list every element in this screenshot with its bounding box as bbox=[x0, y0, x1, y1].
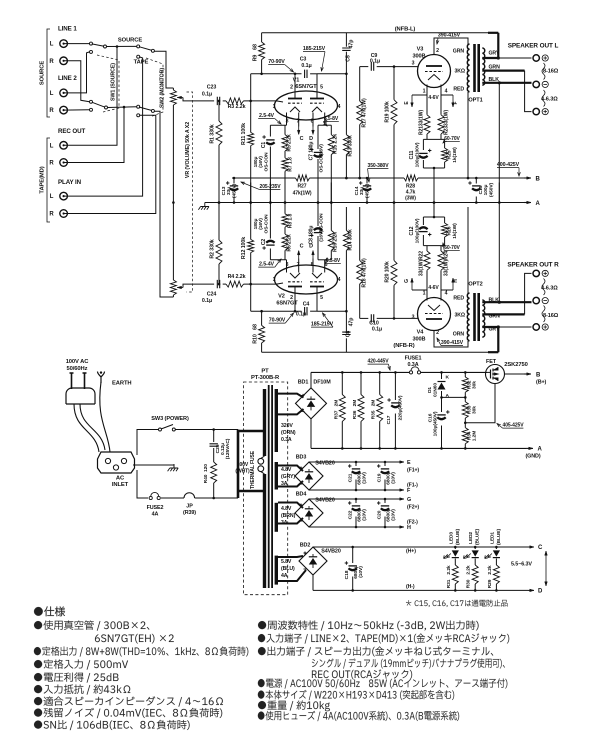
wire BD2 + rail (H+) bbox=[313, 546, 528, 548]
svg-text:R22: R22 bbox=[419, 251, 425, 260]
svg-text:01N60: 01N60 bbox=[433, 383, 439, 397]
wire NFB corner thick bbox=[488, 351, 498, 353]
wire cathode2 node bbox=[318, 259, 331, 261]
resistor R36 2M bbox=[358, 395, 364, 422]
PT dashed boundary bbox=[244, 382, 288, 595]
wire bbox=[317, 159, 319, 203]
svg-text:R31: R31 bbox=[446, 579, 452, 588]
wire grid entry bbox=[277, 283, 284, 284]
capacitor C24 0.1u bbox=[217, 280, 219, 288]
svg-text:8-16Ω: 8-16Ω bbox=[543, 69, 559, 75]
junction bbox=[467, 177, 470, 180]
svg-text:(BLUE): (BLUE) bbox=[475, 529, 481, 545]
capacitor C4 0.1u bbox=[305, 307, 307, 315]
wire BD4 - rail bbox=[309, 526, 398, 528]
wire 300B pin4 bbox=[440, 85, 442, 96]
svg-text:S4VB20: S4VB20 bbox=[315, 498, 335, 504]
svg-text:GRN: GRN bbox=[489, 314, 501, 320]
svg-text:C24: C24 bbox=[207, 292, 217, 298]
svg-text:VR (VOLUME) 50k A X2: VR (VOLUME) 50k A X2 bbox=[185, 122, 191, 178]
svg-text:2: 2 bbox=[436, 48, 439, 54]
svg-text:100V: 100V bbox=[237, 462, 249, 468]
svg-text:RED: RED bbox=[453, 296, 464, 302]
junction bbox=[474, 546, 477, 549]
switch SW2 pole-b arm bbox=[139, 107, 152, 111]
wire bbox=[345, 155, 347, 178]
svg-text:OS-CON: OS-CON bbox=[264, 152, 270, 172]
junction bbox=[249, 201, 252, 204]
wire NFB-L rail bbox=[262, 32, 499, 34]
mosfet FET 2SK2750 bbox=[486, 365, 505, 384]
svg-text:INLET: INLET bbox=[112, 482, 129, 488]
svg-text:33μ: 33μ bbox=[359, 187, 365, 195]
junction bbox=[284, 201, 287, 204]
svg-text:(10V): (10V) bbox=[362, 472, 368, 484]
wire bbox=[317, 125, 319, 149]
arrow H bbox=[398, 526, 404, 528]
switch SW1 pole-a contact TAPE bbox=[90, 50, 93, 53]
switch SW2 pole-a arm bbox=[139, 47, 152, 51]
junction bbox=[360, 371, 363, 374]
svg-text:100V AC: 100V AC bbox=[66, 359, 90, 365]
svg-text:R40: R40 bbox=[203, 474, 209, 483]
svg-text:405-425V: 405-425V bbox=[503, 423, 525, 429]
jumper JP (R39) bbox=[184, 493, 195, 498]
wire bbox=[250, 146, 252, 203]
svg-text:SOURCE: SOURCE bbox=[40, 61, 46, 85]
svg-text:EARTH: EARTH bbox=[112, 381, 131, 387]
wire SW2b common to VR2 bottom bbox=[154, 111, 173, 297]
junction bbox=[345, 177, 348, 180]
svg-text:THERMAL FUSE: THERMAL FUSE bbox=[250, 450, 256, 489]
junction bbox=[498, 201, 501, 204]
wire GRY to terminal bbox=[498, 57, 531, 59]
junction bbox=[366, 177, 369, 180]
svg-text:30k: 30k bbox=[472, 381, 478, 389]
wire bbox=[213, 448, 215, 462]
svg-text:300B: 300B bbox=[413, 54, 426, 60]
junction bbox=[284, 201, 287, 204]
junction bbox=[454, 589, 457, 592]
wire BLK to ground rail bbox=[498, 183, 500, 303]
RCA jack LINE1 R bbox=[60, 57, 68, 65]
svg-text:S4VB20: S4VB20 bbox=[315, 461, 335, 467]
svg-text:LED2: LED2 bbox=[468, 532, 474, 544]
svg-text:(GRY): (GRY) bbox=[281, 474, 295, 480]
svg-text:185-215V: 185-215V bbox=[303, 46, 326, 52]
switch SW1 pole-a arm bbox=[92, 44, 104, 46]
svg-text:2.2k: 2.2k bbox=[446, 565, 452, 574]
switch SW2 dashed boundary bbox=[146, 58, 163, 117]
wire bbox=[269, 249, 271, 260]
wire bbox=[250, 183, 252, 240]
svg-text:PLAY IN: PLAY IN bbox=[58, 179, 82, 186]
junction bbox=[464, 422, 467, 425]
wire OPT primary to B+ rail bbox=[467, 92, 469, 178]
capacitor C5 47p bbox=[342, 48, 350, 50]
wire NFB-R rail bbox=[262, 351, 499, 353]
wire bbox=[317, 236, 319, 260]
RCA jack REC OUT L bbox=[60, 142, 68, 150]
wire FET drain bbox=[487, 371, 491, 373]
svg-text:0.1μ: 0.1μ bbox=[202, 298, 212, 304]
svg-text:6SN7GT: 6SN7GT bbox=[295, 84, 317, 90]
wire bbox=[341, 421, 343, 448]
wire bbox=[250, 74, 252, 133]
wire 300B pin1 bbox=[426, 85, 428, 96]
wire FET output to B+ bbox=[505, 373, 525, 375]
wire bbox=[423, 216, 444, 218]
svg-text:(NFB-R): (NFB-R) bbox=[393, 343, 414, 349]
svg-text:2.5-4V: 2.5-4V bbox=[259, 262, 275, 268]
svg-text:47k(1W): 47k(1W) bbox=[293, 191, 312, 197]
svg-text:(10V): (10V) bbox=[358, 566, 364, 578]
svg-text:C21: C21 bbox=[348, 473, 354, 482]
wire PT 320V to BD1 bbox=[278, 394, 304, 415]
wire bbox=[423, 167, 444, 169]
svg-text:G: G bbox=[404, 279, 410, 283]
svg-text:(WHT): (WHT) bbox=[235, 469, 250, 475]
svg-text:V3: V3 bbox=[417, 47, 424, 53]
arrow A bbox=[524, 202, 531, 204]
terminal speaker R 8-16 + bbox=[533, 324, 539, 330]
resistor R3 2.2k bbox=[226, 98, 244, 104]
switch SW1 pole-b contact SOURCE bbox=[90, 100, 93, 103]
junction bbox=[260, 310, 263, 313]
svg-text:C: C bbox=[300, 136, 304, 142]
svg-text:(10V): (10V) bbox=[362, 509, 368, 521]
svg-text:1k(1W): 1k(1W) bbox=[452, 147, 458, 163]
svg-text:2M: 2M bbox=[371, 400, 377, 407]
svg-text:R9: R9 bbox=[253, 55, 259, 62]
wire bbox=[454, 559, 456, 566]
svg-text:OPT1: OPT1 bbox=[468, 98, 482, 104]
junction bbox=[249, 201, 252, 204]
wire pin3 lead bbox=[286, 260, 288, 273]
LED LED3 (BLUE) bbox=[454, 547, 456, 549]
AC cord bbox=[74, 404, 105, 452]
wire to REC OUT L bbox=[64, 47, 117, 146]
junction bbox=[218, 201, 221, 204]
svg-text:PT: PT bbox=[261, 369, 269, 375]
junction bbox=[351, 546, 354, 549]
wire bbox=[310, 310, 317, 312]
wire cathode1 node bbox=[270, 124, 286, 126]
junction bbox=[218, 100, 221, 103]
junction bbox=[495, 546, 498, 549]
switch SW1 pole-a common bbox=[104, 45, 107, 48]
svg-text:C23: C23 bbox=[207, 85, 217, 91]
svg-text:R25: R25 bbox=[447, 150, 453, 159]
resistor R8 1.8 bbox=[282, 214, 288, 227]
resistor R22 33(1W) bbox=[424, 251, 430, 270]
svg-text:C3: C3 bbox=[300, 57, 307, 63]
resistor R33 30k bbox=[462, 402, 468, 418]
wire to C5 node bbox=[317, 310, 346, 312]
svg-text:R19 100k: R19 100k bbox=[385, 101, 391, 123]
wire OPT1 BLK tap bbox=[482, 82, 531, 84]
svg-text:C19: C19 bbox=[377, 473, 383, 482]
svg-text:185-215V: 185-215V bbox=[311, 322, 334, 328]
wire bbox=[495, 559, 497, 566]
svg-text:6SN7GT: 6SN7GT bbox=[276, 301, 298, 307]
svg-text:3: 3 bbox=[286, 262, 289, 268]
resistor R17 47k(1W) bbox=[357, 101, 363, 125]
svg-text:R7 1.8: R7 1.8 bbox=[288, 157, 294, 172]
wire rail B middle bbox=[310, 177, 405, 179]
wire bbox=[218, 183, 220, 241]
heater arrow D bbox=[312, 127, 314, 135]
junction bbox=[475, 177, 478, 180]
junction bbox=[393, 201, 396, 204]
wire bbox=[440, 246, 442, 251]
wire cathode1 node bbox=[270, 259, 286, 261]
svg-text:60-70V: 60-70V bbox=[444, 245, 460, 251]
svg-text:E: E bbox=[407, 460, 411, 466]
wire bbox=[330, 125, 332, 134]
svg-text:(10V): (10V) bbox=[391, 509, 397, 521]
svg-text:205-235V: 205-235V bbox=[260, 184, 282, 190]
transformer OPT2 bbox=[467, 293, 469, 341]
svg-text:BLK: BLK bbox=[489, 298, 500, 304]
junction bbox=[464, 396, 467, 399]
wire inlet neutral to fuse2 bbox=[137, 470, 148, 498]
wire pin6 lead bbox=[324, 260, 326, 273]
junction bbox=[212, 428, 215, 431]
resistor R35 2M bbox=[377, 395, 383, 422]
svg-text:4.8V: 4.8V bbox=[281, 506, 292, 512]
svg-text:R14 330k: R14 330k bbox=[348, 229, 354, 251]
svg-text:3: 3 bbox=[412, 315, 415, 321]
junction bbox=[433, 201, 436, 204]
svg-text:C12: C12 bbox=[409, 226, 415, 235]
svg-text:RED: RED bbox=[453, 87, 464, 93]
PT primary winding bbox=[263, 389, 266, 456]
svg-text:OS-CON: OS-CON bbox=[319, 153, 325, 173]
ground bbox=[168, 464, 179, 471]
junction bbox=[341, 371, 344, 374]
wire BLK to ground rail bbox=[498, 83, 500, 203]
junction bbox=[384, 461, 387, 464]
arrow B+ bbox=[524, 373, 531, 375]
svg-text:G: G bbox=[407, 497, 411, 503]
svg-text:R3 2.2k: R3 2.2k bbox=[228, 104, 246, 110]
svg-text:R4 2.2k: R4 2.2k bbox=[228, 274, 246, 280]
wire OPT primary to B+ rail bbox=[467, 207, 469, 293]
resistor R23 33(1W) bbox=[438, 115, 444, 134]
wire BD4 + rail bbox=[309, 498, 398, 500]
junction bbox=[393, 65, 396, 68]
svg-text:1.2M: 1.2M bbox=[472, 431, 478, 441]
svg-text:R12 100k: R12 100k bbox=[241, 237, 247, 259]
junction bbox=[497, 325, 500, 328]
svg-text:C6: C6 bbox=[346, 331, 352, 338]
potentiometer VR2 volume (R) bbox=[170, 280, 176, 295]
svg-text:R35: R35 bbox=[371, 410, 377, 419]
wire bbox=[284, 183, 286, 214]
wire bbox=[426, 134, 428, 139]
wire bbox=[284, 171, 286, 202]
wire bbox=[426, 270, 428, 290]
svg-text:1: 1 bbox=[423, 89, 426, 95]
wire rail A (GND) bbox=[205, 202, 524, 204]
wire OPT2 GRY tap bbox=[482, 326, 498, 328]
svg-text:C17: C17 bbox=[386, 415, 392, 424]
switch SW2 pole-a common bbox=[151, 49, 154, 52]
svg-text:C20: C20 bbox=[377, 510, 383, 519]
svg-text:OS-CON: OS-CON bbox=[264, 214, 270, 234]
svg-text:DF10M: DF10M bbox=[313, 380, 331, 386]
svg-text:1: 1 bbox=[273, 277, 276, 283]
svg-text:4-6.3Ω: 4-6.3Ω bbox=[541, 286, 558, 292]
svg-text:R18 47k(1W): R18 47k(1W) bbox=[362, 258, 368, 288]
junction bbox=[384, 489, 387, 492]
svg-text:(ORN): (ORN) bbox=[281, 430, 296, 436]
wire pin6 lead bbox=[324, 113, 326, 126]
arrow F bbox=[398, 489, 404, 491]
svg-text:R20 100k: R20 100k bbox=[385, 261, 391, 283]
wire SW2a common to VR1 top bbox=[154, 51, 173, 88]
junction SW1a to REC OUT L bbox=[116, 45, 119, 48]
svg-text:4: 4 bbox=[338, 277, 341, 283]
wire rail B right bbox=[418, 177, 524, 179]
wire plate2 line bbox=[360, 317, 369, 319]
wire pin3 lead bbox=[286, 113, 288, 126]
svg-text:GRN: GRN bbox=[489, 65, 501, 71]
capacitor C3 0.1u bbox=[305, 70, 307, 78]
wire grid bbox=[244, 100, 277, 102]
PT secondary 320V winding bbox=[275, 389, 278, 452]
svg-text:R24: R24 bbox=[444, 251, 450, 260]
svg-text:FET: FET bbox=[486, 359, 497, 365]
junction bbox=[317, 201, 320, 204]
wire D1/R32 node bbox=[442, 396, 466, 398]
svg-text:(F2+): (F2+) bbox=[407, 505, 419, 511]
junction SW1b to REC OUT R bbox=[123, 106, 126, 109]
svg-text:2M: 2M bbox=[352, 400, 358, 407]
junction bbox=[475, 201, 478, 204]
svg-text:0.1μ: 0.1μ bbox=[301, 63, 311, 69]
svg-text:R17 47k(1W): R17 47k(1W) bbox=[362, 98, 368, 128]
junction bbox=[345, 73, 348, 76]
resistor R18 47k(1W) bbox=[357, 260, 363, 284]
svg-text:SW1 (SOURCE): SW1 (SOURCE) bbox=[111, 63, 117, 101]
wire to 300B grid bbox=[377, 317, 418, 319]
wire 300B pin1 bbox=[426, 290, 428, 301]
svg-text:390-415V: 390-415V bbox=[441, 340, 464, 346]
svg-text:300B: 300B bbox=[413, 337, 426, 343]
svg-text:R36: R36 bbox=[352, 410, 358, 419]
svg-text:TAPE: TAPE bbox=[134, 60, 149, 66]
wire bbox=[366, 178, 368, 184]
svg-text:350-380V: 350-380V bbox=[368, 163, 390, 169]
svg-text:33(1W): 33(1W) bbox=[444, 110, 450, 127]
svg-text:(125VAC): (125VAC) bbox=[225, 438, 231, 459]
wire bbox=[441, 94, 453, 96]
PT secondary 5.8V BLU winding bbox=[275, 556, 278, 585]
wire VR2 bottom lead bbox=[172, 295, 174, 297]
svg-text:(B+): (B+) bbox=[536, 380, 547, 386]
wire GRN to 4ohm terminal bbox=[525, 71, 532, 112]
svg-text:F: F bbox=[453, 101, 459, 104]
svg-text:OPT2: OPT2 bbox=[468, 282, 482, 288]
LED LED1 (BLUE) bbox=[495, 547, 497, 549]
svg-text:4: 4 bbox=[445, 291, 448, 297]
svg-text:2: 2 bbox=[290, 295, 293, 301]
wire VR1 top lead bbox=[172, 88, 174, 90]
wire bbox=[379, 372, 381, 394]
wire LINE1 R to SW1b bbox=[64, 61, 90, 102]
svg-text:390-415V: 390-415V bbox=[438, 33, 461, 39]
wire OPT1 GRN tap bbox=[482, 69, 524, 71]
junction bbox=[378, 447, 381, 450]
svg-text:68: 68 bbox=[253, 324, 259, 330]
filament arrow F bbox=[452, 95, 454, 107]
resistor R15 2.2k bbox=[328, 135, 334, 155]
terminal speaker L 4-6.3 + bbox=[533, 108, 539, 114]
svg-text:(NFB-L): (NFB-L) bbox=[395, 27, 416, 33]
svg-text:R11 100k: R11 100k bbox=[241, 123, 247, 145]
svg-text:2: 2 bbox=[436, 330, 439, 336]
resistor R2 330k bbox=[216, 240, 222, 264]
svg-text:33(1W): 33(1W) bbox=[444, 260, 450, 277]
switch SW2 pole-b contact TAPE bbox=[137, 114, 140, 117]
svg-text:C1: C1 bbox=[261, 142, 267, 149]
svg-text:BD2: BD2 bbox=[300, 543, 311, 549]
svg-text:R29: R29 bbox=[487, 579, 493, 588]
junction bbox=[212, 497, 215, 500]
junction bbox=[218, 201, 221, 204]
svg-text:D1: D1 bbox=[427, 387, 433, 393]
junction bbox=[317, 201, 320, 204]
svg-text:C7 180μ: C7 180μ bbox=[309, 142, 315, 161]
wire pin8 lead bbox=[312, 259, 314, 273]
resistor R30 2.2k bbox=[472, 565, 478, 584]
svg-text:V2: V2 bbox=[278, 294, 285, 300]
junction bbox=[440, 447, 443, 450]
wire inlet to SW3 bbox=[137, 430, 159, 456]
wire bbox=[345, 311, 347, 333]
svg-text:3: 3 bbox=[286, 119, 289, 125]
junction bbox=[464, 371, 467, 374]
svg-text:33μ: 33μ bbox=[226, 187, 232, 195]
potentiometer VR1 volume (L) bbox=[170, 90, 176, 105]
capacitor C11 100u(100V) bbox=[419, 152, 427, 154]
wire bbox=[422, 139, 424, 150]
RCA jack PLAY IN R bbox=[60, 210, 68, 218]
switch SW3 POWER bbox=[159, 428, 162, 431]
capacitor C15 100u(450V) bbox=[472, 185, 480, 187]
svg-text:L: L bbox=[50, 91, 54, 97]
svg-text:JP: JP bbox=[186, 504, 193, 510]
wire bbox=[269, 147, 271, 203]
junction bbox=[440, 371, 443, 374]
svg-text:FUSE1: FUSE1 bbox=[405, 356, 422, 362]
wire bbox=[393, 285, 395, 318]
svg-text:V1: V1 bbox=[293, 78, 300, 84]
VR1 wiper arrow bbox=[177, 97, 183, 99]
svg-text:2: 2 bbox=[290, 85, 293, 91]
svg-text:SPEAKER OUT L: SPEAKER OUT L bbox=[508, 43, 559, 50]
link 8-16ohm bbox=[542, 63, 545, 80]
AC inlet bbox=[98, 452, 135, 473]
wire rail B (400-425V) bbox=[232, 177, 296, 179]
wire bbox=[360, 372, 362, 394]
wire bbox=[345, 338, 347, 352]
wire bbox=[261, 311, 263, 325]
wire bbox=[317, 183, 319, 227]
wire bbox=[422, 160, 424, 168]
